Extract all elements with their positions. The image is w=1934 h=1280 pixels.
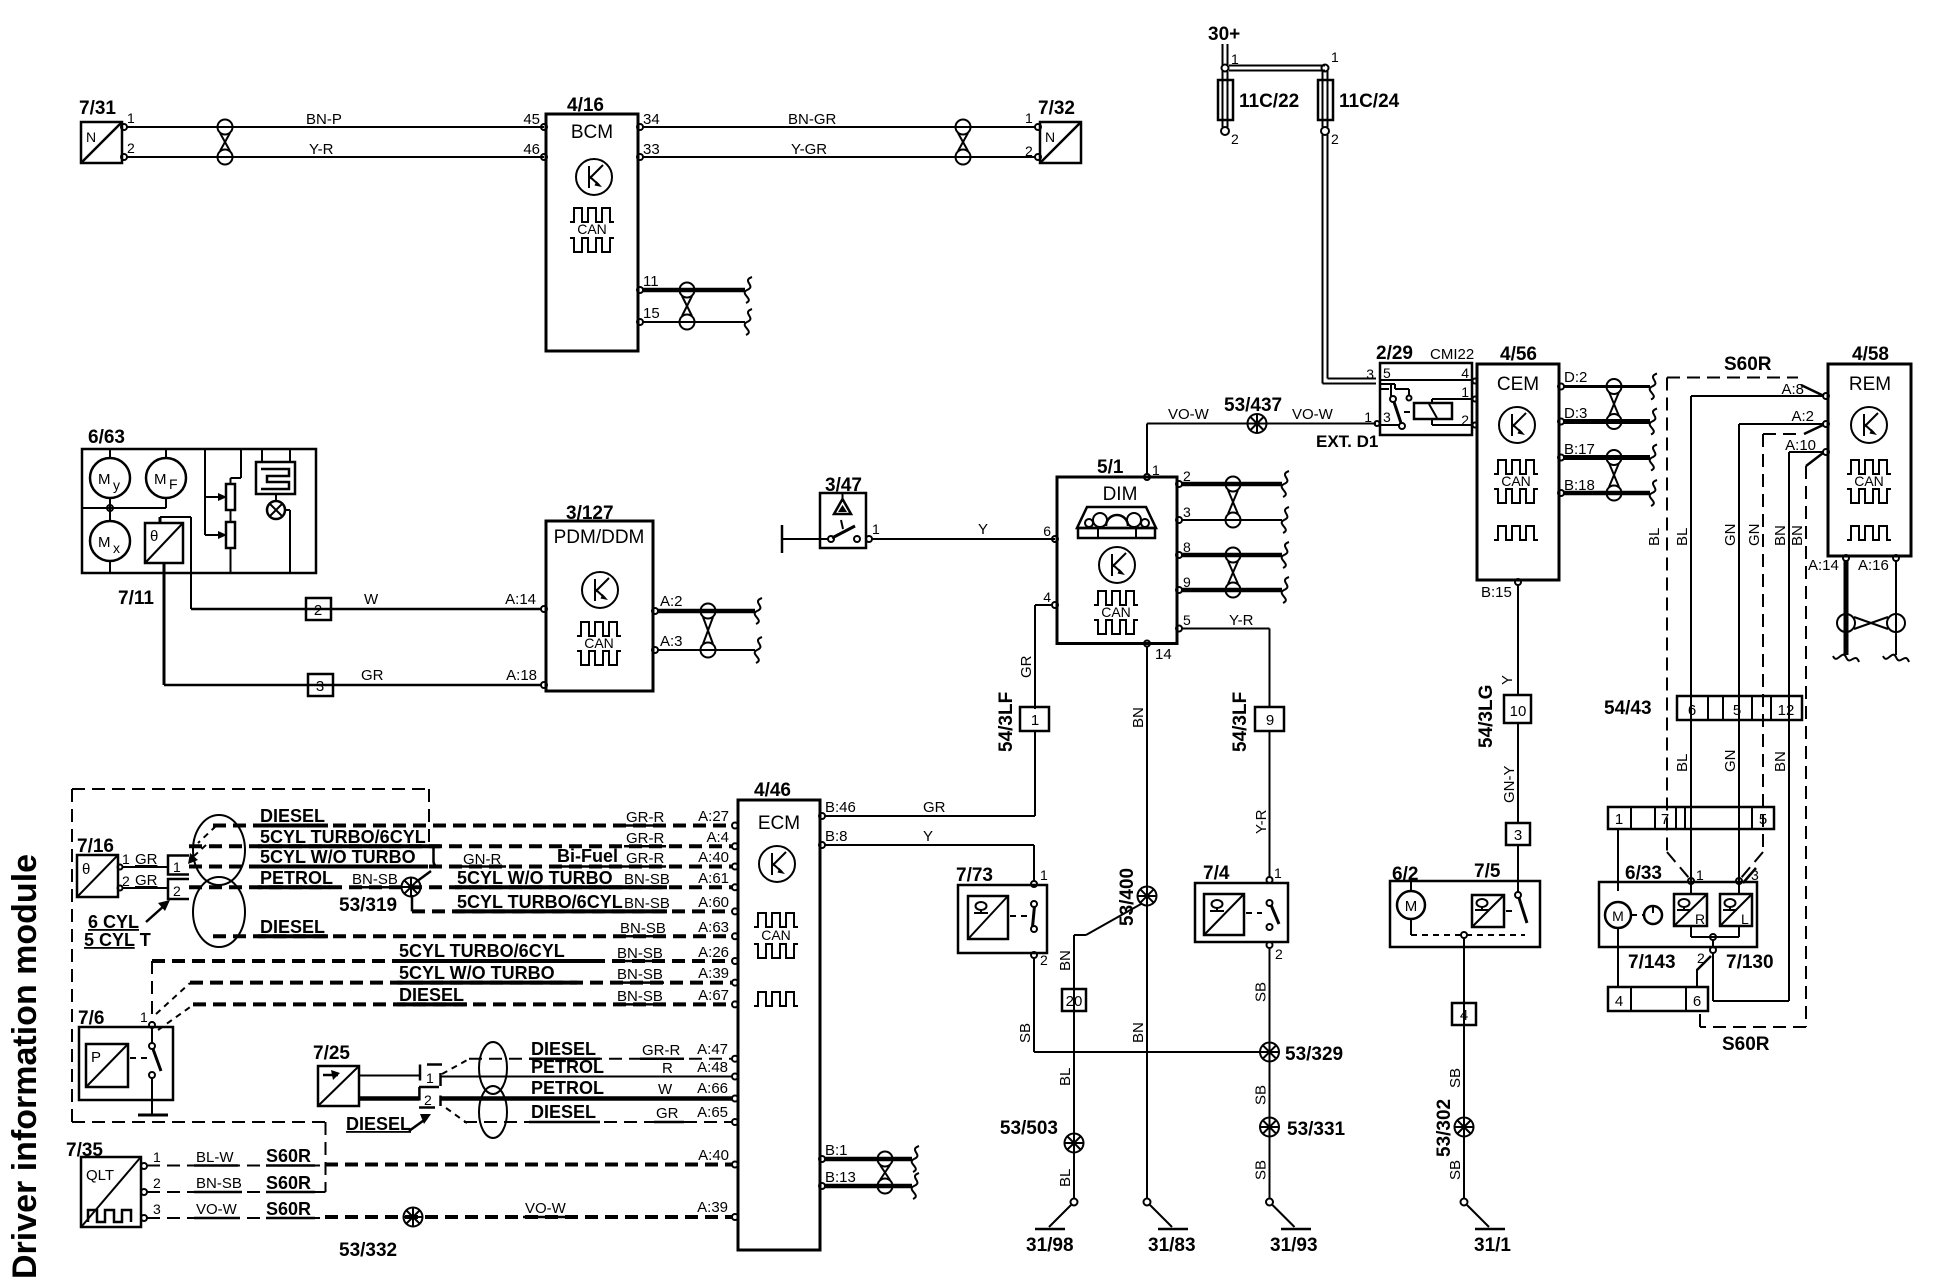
wire DIM:9: [1182, 588, 1282, 593]
wire SB 7/5 down: [1447, 938, 1464, 1199]
svg-text:DIM: DIM: [1103, 484, 1138, 505]
arrow to connector: [146, 900, 170, 922]
pressure sensor symbol P: [86, 1044, 128, 1087]
pin 4 of DIM: [1043, 589, 1058, 608]
svg-text:θ: θ: [150, 528, 158, 545]
twisted pair 7/25: [479, 1042, 507, 1138]
svg-text:GR: GR: [361, 667, 384, 684]
wire to 3/47: [782, 538, 828, 540]
connector bracket 2 of 7/25: [419, 1087, 441, 1108]
pin 1 of 6/33: [1688, 867, 1704, 884]
pin 11 of BCM: [637, 273, 659, 293]
svg-text:31/98: 31/98: [1026, 1235, 1074, 1256]
svg-text:3: 3: [1751, 867, 1759, 883]
wire M to connector 4: [1617, 928, 1619, 987]
svg-text:BN-SB: BN-SB: [196, 1175, 242, 1192]
svg-text:DIESEL: DIESEL: [346, 1114, 411, 1134]
pin 3 of 6/33: [1736, 867, 1759, 884]
pin 1 of 7/73: [1031, 867, 1048, 887]
svg-text:SB: SB: [1447, 1160, 1464, 1180]
twisted pair symbol: [1607, 379, 1622, 429]
SEC-C: [1316, 343, 1657, 892]
svg-text:A:4: A:4: [706, 829, 729, 846]
svg-text:B:15: B:15: [1481, 584, 1512, 601]
svg-text:ECM: ECM: [758, 813, 800, 834]
svg-text:θ: θ: [82, 861, 90, 878]
wire coil to pin 2: [1432, 419, 1472, 425]
svg-text:DIESEL: DIESEL: [260, 806, 325, 826]
svg-text:53/400: 53/400: [1117, 868, 1138, 926]
svg-text:D:2: D:2: [1564, 369, 1587, 386]
svg-text:S60R: S60R: [1724, 354, 1772, 375]
svg-text:11C/24: 11C/24: [1339, 91, 1400, 112]
motor unit 6/2 with switch 7/5: [1390, 861, 1540, 947]
svg-text:5: 5: [1183, 612, 1191, 628]
svg-text:45: 45: [523, 111, 540, 128]
svg-text:BL: BL: [1674, 528, 1691, 546]
wire row A:65 DIESEL: [446, 1102, 738, 1125]
svg-text:GR: GR: [923, 799, 946, 816]
svg-text:A:14: A:14: [505, 591, 536, 608]
svg-text:BN: BN: [1772, 751, 1789, 772]
potentiometer 2: [226, 522, 235, 548]
wire BL dashed S60R: [1646, 378, 1824, 879]
svg-text:31/83: 31/83: [1148, 1235, 1196, 1256]
svg-text:BL: BL: [1057, 1068, 1074, 1086]
svg-text:Bi-Fuel: Bi-Fuel: [557, 846, 618, 866]
node 1 of 11C/24: [1322, 49, 1340, 72]
wire row A:40 5CYL W/O TURBO Bi-Fuel: [189, 846, 738, 870]
motor M 6/33: [1605, 902, 1631, 928]
variant area dashed box: [72, 789, 429, 1192]
svg-text:1: 1: [140, 1009, 148, 1025]
svg-text:BN-SB: BN-SB: [617, 945, 663, 962]
pin A:16 of REM: [1858, 555, 1899, 574]
sensor link dashed: [1246, 912, 1262, 914]
svg-text:5: 5: [1383, 365, 1391, 381]
svg-text:31/93: 31/93: [1270, 1235, 1318, 1256]
svg-text:12: 12: [1778, 702, 1795, 719]
wire CEM B:15 down: [1517, 585, 1519, 695]
svg-text:5CYL W/O TURBO: 5CYL W/O TURBO: [399, 963, 555, 983]
svg-text:VO-W: VO-W: [196, 1201, 238, 1218]
connector 1 of 54/3LF: [1020, 707, 1049, 731]
pin A:3 of PDM: [652, 633, 683, 653]
svg-text:BN: BN: [1130, 707, 1147, 728]
pin B:46 of ECM: [819, 813, 825, 819]
pin 9 of DIM: [1176, 574, 1191, 593]
splice 53/503: [1000, 1118, 1084, 1153]
svg-text:QLT: QLT: [86, 1167, 114, 1184]
SEC-D: [782, 395, 1380, 1256]
control module PDM/DDM 3/127: [546, 503, 653, 691]
svg-text:M: M: [98, 534, 111, 551]
svg-text:5CYL TURBO/6CYL: 5CYL TURBO/6CYL: [399, 941, 565, 961]
svg-text:4/56: 4/56: [1500, 344, 1537, 365]
cut mark A:16: [1883, 655, 1909, 662]
wire 30+ feed: [1223, 44, 1228, 66]
control module DIM 5/1: [1057, 457, 1177, 644]
splice 53/319: [339, 871, 431, 916]
CAN symbol DIM: [1094, 591, 1138, 634]
wire BN-P 7/31:1 to BCM:45: [127, 111, 544, 128]
pin 2 of 7/32: [1025, 143, 1041, 160]
lamp symbol: [267, 494, 290, 573]
svg-text:BN-SB: BN-SB: [620, 920, 666, 937]
twisted pair symbol: [680, 283, 695, 330]
relay coil link dashed: [1404, 411, 1414, 413]
svg-text:S60R: S60R: [266, 1199, 311, 1219]
wire SB 7/73:2 to 53/329: [1017, 958, 1261, 1052]
wire bus 11C/24 to 2/29: [1323, 135, 1377, 384]
svg-text:y: y: [113, 477, 120, 493]
pin B:18 of CEM: [1558, 477, 1595, 496]
relay 7/4: [1195, 863, 1288, 942]
svg-text:7/25: 7/25: [313, 1043, 350, 1064]
pin 1 of 3/47: [866, 521, 880, 542]
pin A:10 of REM: [1785, 437, 1829, 455]
bracket row2-row3 link: [434, 846, 439, 866]
switch contacts 7/4: [1267, 900, 1280, 930]
svg-text:5CYL TURBO/6CYL: 5CYL TURBO/6CYL: [260, 827, 426, 847]
pin 2 of 7/35: [141, 1175, 161, 1195]
pin 1 of 7/16: [118, 851, 131, 870]
svg-text:CAN: CAN: [584, 635, 614, 651]
cut mark BCM:11: [745, 277, 752, 303]
wire row A:67 DIESEL: [193, 985, 738, 1007]
svg-text:BL: BL: [1646, 528, 1663, 546]
fuse 11C/24: [1318, 71, 1400, 127]
wire 7/25:2: [359, 1096, 419, 1101]
wire row A:66 PETROL: [441, 1078, 738, 1102]
wire CEM D:2: [1564, 385, 1650, 388]
pressure switch 7/6: [78, 1008, 173, 1100]
pin 2 link: [1697, 950, 1711, 987]
wire row BN-SB S60R: [147, 1173, 317, 1193]
svg-text:A:27: A:27: [698, 808, 729, 825]
twisted pair symbol: [701, 604, 716, 658]
svg-text:A:39: A:39: [698, 965, 729, 982]
svg-text:15: 15: [643, 305, 660, 322]
svg-text:3: 3: [1383, 409, 1391, 425]
svg-text:A:60: A:60: [698, 894, 729, 911]
svg-text:1: 1: [1031, 712, 1039, 729]
CAN symbol BCM: [570, 208, 614, 252]
svg-text:7/5: 7/5: [1474, 861, 1501, 882]
svg-text:VO-W: VO-W: [1292, 406, 1334, 423]
wire PDM A:3: [658, 649, 755, 651]
svg-text:A:61: A:61: [698, 870, 729, 887]
svg-text:B:8: B:8: [825, 828, 848, 845]
svg-text:53/437: 53/437: [1224, 395, 1282, 416]
svg-text:7/11: 7/11: [118, 588, 154, 609]
K symbol ECM: [759, 846, 795, 882]
wire VO-W DIM:1 to 2/29:1: [1147, 406, 1376, 475]
splice 53/400: [1117, 868, 1157, 926]
svg-text:EXT. D1: EXT. D1: [1316, 432, 1378, 451]
twisted pair symbol: [878, 1152, 893, 1194]
connector 4 inline: [1452, 1003, 1476, 1025]
connector 2 of 7/11: [306, 598, 331, 620]
ground 31/1: [1461, 1199, 1512, 1257]
pin A:14 of REM: [1808, 555, 1849, 574]
svg-text:DIESEL: DIESEL: [531, 1102, 596, 1122]
svg-text:3: 3: [316, 678, 324, 695]
splice 53/332: [339, 1208, 423, 1262]
svg-text:SB: SB: [1253, 982, 1270, 1002]
wire terminator: [781, 525, 784, 553]
wire GN dashed S60R: [1741, 425, 1823, 878]
svg-text:1: 1: [1040, 867, 1048, 883]
twisted pair symbol: [1226, 548, 1241, 598]
wire BN-GR BCM:34 to 7/32:1: [643, 111, 1036, 128]
svg-text:2/29: 2/29: [1376, 343, 1413, 364]
connector bracket 2: [168, 879, 189, 899]
svg-text:2: 2: [1183, 468, 1191, 484]
wire row A:47 DIESEL: [442, 1039, 738, 1074]
CAN symbol CEM: [1494, 460, 1538, 540]
svg-text:53/503: 53/503: [1000, 1118, 1058, 1139]
wire BCM:15 CAN bus: [643, 321, 745, 323]
K symbol REM: [1851, 407, 1887, 443]
svg-text:A:65: A:65: [697, 1104, 728, 1121]
svg-text:46: 46: [523, 141, 540, 158]
cut mark B:17: [1650, 445, 1657, 471]
svg-text:BCM: BCM: [571, 122, 613, 143]
cut mark B:18: [1650, 480, 1657, 506]
svg-text:2: 2: [424, 1092, 432, 1108]
wire REM A:14: [1844, 561, 1849, 655]
svg-text:BN: BN: [1789, 525, 1806, 546]
splice 53/329: [1260, 1043, 1343, 1066]
pin 5 of DIM: [1176, 612, 1191, 632]
cut mark B:1: [912, 1146, 919, 1172]
svg-text:N: N: [1045, 129, 1055, 145]
sensor link dashed: [1010, 915, 1030, 917]
svg-text:GR-R: GR-R: [626, 809, 664, 826]
pin 1 junction 2/29-CEM: [1473, 397, 1478, 402]
cut mark BCM:15: [745, 309, 752, 335]
pin A:14 of PDM: [541, 606, 547, 612]
svg-text:53/319: 53/319: [339, 895, 397, 916]
svg-text:B:46: B:46: [825, 799, 856, 816]
svg-text:DIESEL: DIESEL: [260, 917, 325, 937]
switch contact 7/5: [1515, 892, 1527, 923]
wire BL REM A:8: [1674, 396, 1823, 881]
switch contacts 3/47: [828, 520, 860, 542]
wire GN REM A:2: [1722, 424, 1823, 881]
svg-text:BN-SB: BN-SB: [352, 871, 398, 888]
svg-text:GR: GR: [1018, 655, 1035, 678]
svg-text:PETROL: PETROL: [260, 868, 333, 888]
CAN symbol ECM: [754, 913, 798, 1006]
svg-text:4: 4: [1043, 589, 1051, 605]
pin 1 of 7/6: [140, 1009, 155, 1028]
pin B:15 of CEM: [1481, 579, 1521, 601]
svg-text:1: 1: [1025, 110, 1033, 126]
sensor link dashed: [1506, 910, 1514, 912]
wire Y ECM B:8 to 7/73: [824, 828, 1034, 881]
level sensor symbol 7/5: [1472, 895, 1504, 927]
svg-text:W: W: [658, 1081, 673, 1098]
wire row A:48 PETROL: [441, 1057, 738, 1080]
potentiometer wires: [231, 449, 242, 573]
level sensor L 7/130: [1720, 894, 1752, 927]
control module ECM 4/46: [738, 780, 820, 1250]
variant link dashed to 7/6: [152, 961, 193, 1030]
pin 33 of BCM: [637, 141, 660, 160]
svg-text:54/3LF: 54/3LF: [1230, 692, 1251, 752]
svg-text:5CYL W/O TURBO: 5CYL W/O TURBO: [457, 868, 613, 888]
wire BN branch to 20: [1057, 904, 1141, 1199]
svg-text:4: 4: [1460, 1007, 1468, 1024]
svg-text:S60R: S60R: [266, 1146, 311, 1166]
pin B:8 of ECM: [819, 842, 825, 848]
svg-text:BL: BL: [1057, 1169, 1074, 1187]
wire GN-Y: [1501, 723, 1518, 823]
twisted pair symbol: [956, 120, 971, 165]
svg-text:2: 2: [1231, 131, 1239, 147]
wire SB 7/4:2 down: [1253, 948, 1270, 1199]
instrument cluster icon: [1077, 507, 1156, 538]
svg-text:BN-SB: BN-SB: [617, 988, 663, 1005]
svg-text:BL: BL: [1674, 754, 1691, 772]
svg-text:1: 1: [1461, 384, 1469, 400]
svg-text:53/331: 53/331: [1287, 1119, 1346, 1140]
svg-text:33: 33: [643, 141, 660, 158]
pin 2 junction 2/29-CEM: [1473, 423, 1478, 428]
pin 2 of 7/4: [1267, 942, 1284, 962]
svg-text:W: W: [364, 591, 379, 608]
svg-text:1: 1: [1274, 865, 1282, 881]
wire coil to pin 1: [1432, 399, 1472, 403]
cut mark DIM:8: [1282, 542, 1289, 568]
svg-text:CAN: CAN: [1501, 473, 1531, 489]
connector 10 of 54/3LG: [1504, 695, 1531, 723]
hazard triangle symbol: [834, 494, 851, 515]
wire R-L join: [1691, 884, 1739, 953]
svg-text:R: R: [1695, 911, 1705, 927]
svg-text:VO-W: VO-W: [1168, 406, 1210, 423]
twisted pair symbol horizontal: [1837, 614, 1905, 632]
pin A:18 of PDM: [541, 682, 547, 688]
cut mark DIM:2: [1282, 471, 1289, 497]
wire row A:39 VO-W S60R: [147, 1199, 738, 1220]
svg-text:2: 2: [173, 883, 181, 899]
heater element: [256, 449, 295, 494]
pin 45 of BCM: [541, 124, 547, 130]
svg-text:7/143: 7/143: [1628, 952, 1676, 973]
variant arrow dashed: [188, 826, 216, 864]
svg-text:2: 2: [1040, 952, 1048, 968]
wire DIM:3: [1182, 519, 1282, 521]
svg-text:PDM/DDM: PDM/DDM: [554, 527, 645, 548]
svg-text:A:63: A:63: [698, 919, 729, 936]
wiper feed wires: [205, 449, 227, 539]
cut mark D:3: [1650, 409, 1657, 435]
sensor N 7/31: [81, 122, 122, 163]
CAN symbol REM: [1847, 460, 1891, 540]
cut mark DIM:3: [1282, 507, 1289, 533]
svg-text:S60R: S60R: [1722, 1034, 1770, 1055]
pin 2 of 11C/22: [1221, 127, 1239, 147]
motor MF: [146, 449, 186, 498]
pump symbol 6/33: [1631, 906, 1662, 924]
svg-text:1: 1: [1331, 49, 1339, 65]
svg-text:SB: SB: [1447, 1068, 1464, 1088]
svg-text:A:40: A:40: [698, 1147, 729, 1164]
switch 3/47: [820, 475, 866, 548]
svg-text:10: 10: [1510, 703, 1527, 720]
svg-text:GN: GN: [1746, 524, 1763, 547]
svg-text:A:26: A:26: [698, 944, 729, 961]
splice 53/437: [1224, 395, 1282, 433]
svg-text:L: L: [1741, 911, 1749, 927]
svg-text:Y: Y: [923, 828, 933, 845]
svg-text:x: x: [113, 540, 120, 556]
cut mark A:2: [755, 598, 762, 624]
svg-text:BN: BN: [1772, 525, 1789, 546]
svg-text:34: 34: [643, 111, 660, 128]
svg-text:A:16: A:16: [1858, 557, 1889, 574]
svg-text:GR-R: GR-R: [626, 830, 664, 847]
svg-text:Y: Y: [1499, 675, 1516, 685]
wire row A:26 5CYL TURBO/6CYL: [152, 941, 738, 964]
svg-text:BL-W: BL-W: [196, 1149, 234, 1166]
K symbol BCM: [576, 159, 612, 195]
svg-text:2: 2: [1025, 143, 1033, 159]
wire BN dashed S60R: [1700, 453, 1823, 1027]
connector 9 of 54/3LF: [1255, 707, 1284, 731]
svg-text:DIESEL: DIESEL: [531, 1039, 596, 1059]
cut mark A:14: [1833, 655, 1859, 662]
pin A:8 of REM: [1781, 381, 1829, 399]
wire Y-GR BCM:33 to 7/32:2: [643, 141, 1036, 158]
relay coil 2/29: [1414, 403, 1452, 419]
svg-text:Y: Y: [978, 521, 988, 538]
svg-text:A:18: A:18: [506, 667, 537, 684]
wire BN DIM:14 down: [1130, 646, 1147, 1199]
svg-text:53/332: 53/332: [339, 1240, 397, 1261]
svg-text:M: M: [98, 471, 111, 488]
wire to 7/5 switch: [1517, 845, 1519, 892]
svg-text:P: P: [91, 1049, 101, 1066]
wire CEM D:3: [1564, 419, 1650, 424]
svg-text:BN: BN: [1130, 1022, 1147, 1043]
svg-text:6: 6: [1688, 702, 1696, 719]
potentiometer 1: [226, 484, 235, 510]
svg-text:A:2: A:2: [660, 593, 683, 610]
svg-text:SB: SB: [1253, 1085, 1270, 1105]
svg-text:5CYL W/O TURBO: 5CYL W/O TURBO: [260, 847, 416, 867]
K symbol DIM: [1099, 547, 1135, 583]
twisted pair symbol: [218, 120, 233, 165]
wire Y-R to 7/4: [1253, 731, 1270, 877]
svg-text:53/302: 53/302: [1434, 1099, 1455, 1157]
svg-text:1: 1: [1615, 811, 1623, 828]
svg-text:1: 1: [426, 1070, 434, 1086]
cut mark D:2: [1650, 374, 1657, 400]
svg-text:5: 5: [1733, 702, 1741, 719]
svg-text:11C/22: 11C/22: [1239, 91, 1299, 112]
svg-text:CAN: CAN: [1854, 473, 1884, 489]
wire BN REM A:10: [1772, 452, 1823, 1001]
pin 1 of DIM: [1144, 462, 1160, 480]
svg-text:Y-R: Y-R: [309, 141, 334, 158]
K symbol CEM: [1499, 407, 1535, 443]
level sensor R 7/143: [1674, 894, 1707, 927]
wire GR to ECM B:46: [824, 731, 1035, 816]
